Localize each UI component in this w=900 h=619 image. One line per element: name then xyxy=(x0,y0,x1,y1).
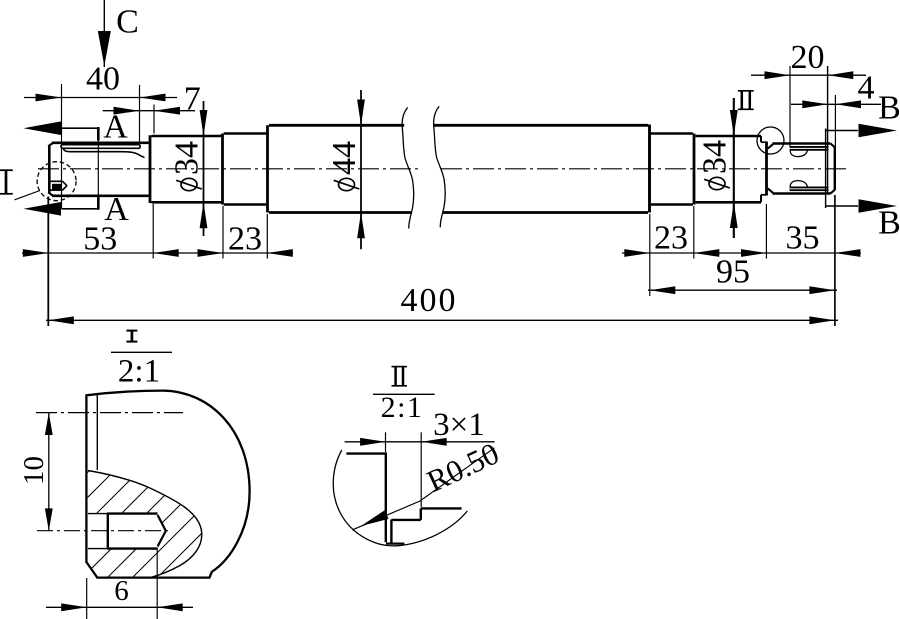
svg-text:2:1: 2:1 xyxy=(118,353,160,389)
svg-text:4: 4 xyxy=(858,69,875,106)
svg-text:35: 35 xyxy=(786,220,820,257)
svg-text:34: 34 xyxy=(169,141,206,175)
svg-text:40: 40 xyxy=(86,61,120,98)
svg-text:B: B xyxy=(878,90,900,127)
svg-text:6: 6 xyxy=(114,575,129,607)
svg-text:34: 34 xyxy=(697,140,734,174)
svg-text:53: 53 xyxy=(83,221,117,258)
svg-text:44: 44 xyxy=(326,141,363,175)
svg-text:7: 7 xyxy=(184,80,201,117)
svg-text:B: B xyxy=(878,205,900,242)
svg-text:2:1: 2:1 xyxy=(381,391,424,424)
svg-text:400: 400 xyxy=(401,282,458,319)
svg-text:10: 10 xyxy=(18,456,50,485)
svg-text:20: 20 xyxy=(791,39,825,76)
svg-text:3×1: 3×1 xyxy=(433,407,485,443)
svg-text:C: C xyxy=(116,4,139,41)
svg-text:95: 95 xyxy=(716,254,750,291)
svg-text:23: 23 xyxy=(228,221,262,258)
svg-text:23: 23 xyxy=(654,220,688,257)
